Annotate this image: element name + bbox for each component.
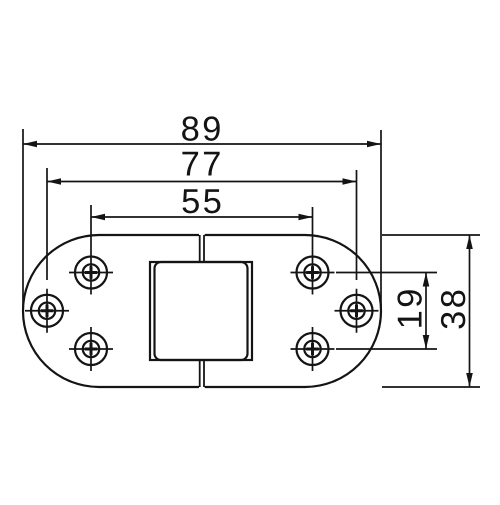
- leaf gap line bottom right: [203, 360, 205, 387]
- arrow 55 right: [299, 214, 313, 221]
- knuckle inner rounded square: [155, 262, 248, 360]
- extension line top for dim 19: [336, 272, 437, 274]
- hinge right leaf outline: [205, 235, 381, 387]
- arrow 89 right: [367, 141, 381, 148]
- extension line right x312.5 for dim 55: [312, 207, 314, 251]
- arrow 19 bottom: [423, 335, 430, 349]
- extension line right x356.5 for dim 77: [356, 170, 358, 280]
- hinge left leaf outline: [23, 235, 199, 387]
- leaf gap line top right: [203, 235, 205, 262]
- arrow 77 right: [343, 178, 357, 185]
- dimension line 77: [47, 181, 357, 183]
- extension line bottom for dim 19: [336, 348, 437, 350]
- label 89: [182, 116, 220, 140]
- extension line bottom for dim 38: [382, 386, 480, 388]
- leaf gap line bottom left: [199, 360, 201, 387]
- arrow 89 left: [23, 141, 37, 148]
- knuckle outer square: [150, 262, 252, 360]
- dimension line 55: [91, 216, 313, 218]
- extension line left x47 for dim 77: [46, 168, 48, 280]
- hole H5 middle-right: [335, 289, 379, 333]
- label 77: [182, 152, 219, 176]
- extension line right x381 for dim 89: [380, 130, 382, 311]
- dimension line 38: [469, 235, 471, 387]
- arrow 38 top: [466, 235, 473, 249]
- hole H3 bottom-left: [69, 327, 113, 371]
- arrow 38 bottom: [466, 373, 473, 387]
- arrow 77 left: [47, 178, 61, 185]
- leaf gap line top left: [199, 235, 201, 262]
- extension line left x91 for dim 55: [90, 205, 92, 251]
- label 55: [183, 189, 221, 213]
- extension line left x23 for dim 89: [22, 129, 24, 311]
- hole H6 bottom-right: [291, 327, 335, 371]
- arrow 19 top: [423, 273, 430, 287]
- hole H4 top-right: [291, 251, 335, 295]
- extension line top for dim 38: [382, 234, 480, 236]
- label 19: [397, 290, 421, 326]
- hole H2 middle-left: [25, 289, 69, 333]
- dimension line 19: [425, 273, 427, 350]
- hole H1 top-left: [69, 251, 113, 295]
- arrow 55 left: [91, 214, 105, 221]
- label 38: [441, 291, 465, 329]
- dimension line 89: [23, 143, 381, 145]
